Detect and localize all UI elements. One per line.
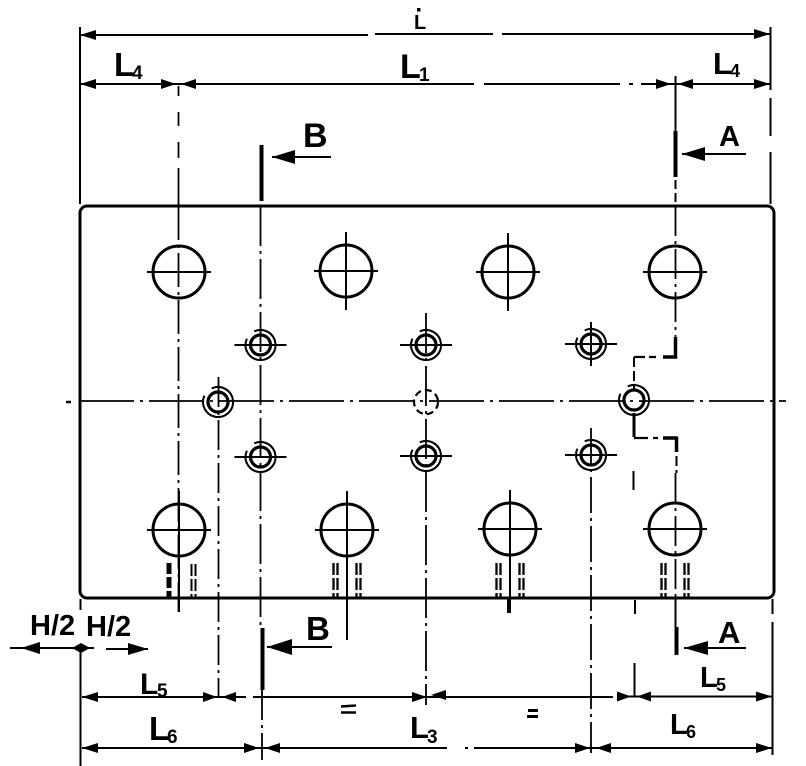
centerline column x178: [178, 86, 180, 205]
section line A vertical dash-dot: [675, 206, 677, 338]
svg-text:1: 1: [419, 65, 430, 86]
arrow pair at x593: [575, 743, 590, 753]
svg-text:B: B: [306, 610, 330, 647]
hidden hole center (dashed): [414, 390, 438, 414]
arrow right end: [754, 79, 770, 89]
section line A bottom thick mark: [675, 627, 679, 655]
section arrow A bottom: [684, 647, 746, 649]
threaded hole row A 3: [565, 329, 617, 359]
section line B vertical dash-dot: [260, 206, 262, 628]
section line B top thick mark: [260, 145, 264, 201]
arrow L5 left end: [82, 692, 98, 702]
svg-text:3: 3: [427, 727, 438, 748]
centerline column x426: [425, 313, 427, 705]
threaded hole row A 1: [235, 330, 287, 360]
section line A below jog: [676, 456, 678, 473]
arrow L6 left end: [82, 743, 98, 753]
H/2 arrow right: [106, 648, 148, 650]
svg-text:L: L: [140, 668, 158, 701]
section arrow B top: [272, 156, 331, 158]
section line A jog vertical x634: [633, 357, 635, 389]
centerline horizontal main axis: [66, 401, 71, 404]
section arrow A top: [682, 153, 746, 155]
svg-text:5: 5: [157, 681, 168, 702]
large hole bottom 2: [315, 491, 379, 640]
dimension row L6 / L3 / L6: [82, 747, 772, 749]
equals mark 1: [341, 706, 356, 713]
svg-text:L: L: [400, 48, 421, 86]
dimension line L4-L1-L4: [80, 83, 770, 85]
svg-text:6: 6: [686, 722, 696, 742]
svg-text:B: B: [303, 117, 328, 155]
dimension line L: [80, 34, 770, 35]
svg-text:H/2: H/2: [86, 611, 131, 643]
arrow pair at x178: [161, 79, 176, 89]
arrow right end row L5: [756, 692, 772, 702]
large hole bottom 4: [643, 503, 707, 555]
section line A jog upper: [663, 337, 676, 357]
extension left edge bottom: [80, 599, 82, 766]
centerline column x592: [590, 322, 592, 366]
threaded hole row C 3: [565, 440, 617, 470]
threaded hole row C 2: [400, 441, 452, 471]
extension line left edge top: [79, 27, 81, 204]
H/2 arrow left: [10, 647, 94, 649]
section arrow B bottom: [267, 646, 332, 648]
section line A jog lower: [634, 437, 658, 439]
arrow pair at x426: [412, 692, 427, 702]
section line B bottom thick mark: [261, 628, 265, 690]
centerline column x219: [218, 377, 220, 698]
arrow right end row L6: [756, 743, 772, 753]
arrow pair at x262: [244, 743, 259, 753]
svg-text:4: 4: [730, 61, 740, 81]
hidden lines under bottom hole 3: [497, 563, 524, 598]
extension line right edge top: [770, 27, 772, 204]
svg-text:A: A: [718, 615, 740, 650]
large hole bottom 3: [478, 490, 542, 613]
dimension row L5 / = / = / L5: [82, 696, 772, 699]
equals mark 2: [527, 711, 538, 717]
arrow L left: [80, 30, 96, 40]
hidden lines under bottom hole 4: [662, 563, 689, 598]
svg-text:4: 4: [132, 63, 143, 84]
svg-text:H/2: H/2: [30, 610, 75, 642]
H/2 diamond at edge: [72, 643, 90, 653]
threaded hole row C 1: [235, 442, 287, 472]
extension right edge bottom: [772, 599, 774, 755]
plate outline: [80, 206, 774, 598]
arrow pair at x674: [656, 79, 671, 89]
arrow left end: [80, 79, 96, 89]
extension x633 below section jog: [634, 471, 636, 696]
large hole bottom 1: [147, 491, 211, 612]
large hole top 3: [476, 233, 540, 311]
arrow pair at x220: [203, 692, 217, 702]
large hole top 1: [147, 246, 211, 298]
hidden lines under bottom hole 1: [169, 563, 196, 598]
arrow pair at x634: [617, 692, 631, 702]
large hole top 4: [643, 246, 707, 298]
svg-text:5: 5: [716, 675, 726, 695]
threaded hole row A 2: [400, 330, 452, 360]
threaded hole mid right (in section A jog): [619, 385, 649, 415]
svg-text:A: A: [719, 121, 740, 153]
arrow L right: [754, 29, 770, 39]
extension x508 below plate: [507, 599, 509, 613]
hidden lines under bottom hole 2: [334, 563, 361, 598]
threaded hole mid left: [203, 387, 233, 417]
svg-text:6: 6: [167, 727, 178, 748]
svg-text:L: L: [414, 12, 426, 34]
large hole top 2: [314, 232, 378, 310]
section line A top thick mark: [675, 76, 677, 131]
